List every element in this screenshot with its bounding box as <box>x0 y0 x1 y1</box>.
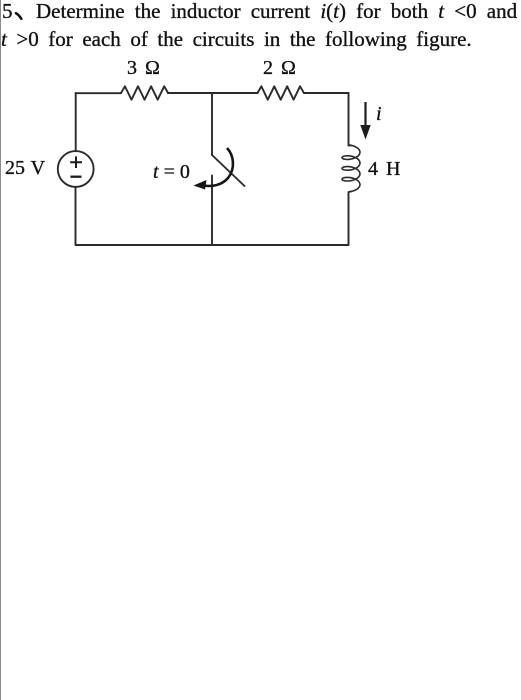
label t = 0 <box>153 161 190 184</box>
circuit schematic <box>0 0 521 330</box>
switch arc arrowhead <box>194 180 207 190</box>
resistor R2 2ohm zigzag <box>258 86 304 99</box>
wire right branch lower <box>349 192 352 246</box>
resistor R1 3ohm zigzag <box>121 86 168 99</box>
label 25 V <box>5 157 45 180</box>
switch action arc arrow <box>202 148 233 186</box>
label 3 ohm <box>127 57 160 80</box>
wire top-left: left corner to R1 <box>76 92 121 94</box>
inductor L1 coil <box>342 145 360 191</box>
wire middle branch upper (to switch) <box>211 93 213 155</box>
label 4 H <box>368 158 400 181</box>
wire top-mid: R1 to R2 <box>168 92 258 94</box>
problem text line 2 <box>1 27 472 52</box>
minus sign of source <box>70 176 81 178</box>
problem text line 1 <box>2 0 13 24</box>
label i <box>376 103 382 126</box>
wire right branch upper <box>349 93 352 146</box>
wire left branch upper <box>75 93 77 151</box>
wire top-right: R2 to right corner <box>304 92 349 94</box>
wire middle branch lower <box>211 176 213 246</box>
current arrow i <box>361 102 370 138</box>
plus sign of source <box>70 156 82 176</box>
ideographic comma <box>14 11 26 22</box>
page left scan edge <box>0 0 1 700</box>
voltage source V1 circle <box>58 151 94 187</box>
wire bottom <box>76 244 349 246</box>
switch blade <box>212 155 245 186</box>
wire left branch lower <box>75 187 77 245</box>
label 2 ohm <box>263 57 296 80</box>
